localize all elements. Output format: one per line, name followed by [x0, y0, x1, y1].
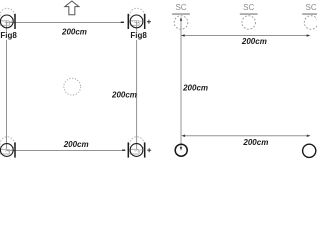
microphone Fig8 top-left	[0, 8, 16, 29]
node plus mark top-right mic	[147, 20, 151, 24]
dimension line horizontal bottom 200cm	[181, 134, 310, 137]
microphone Fig8 bottom-right	[128, 137, 146, 158]
svg-text:SC: SC	[175, 3, 186, 12]
dimension line vertical 200cm	[180, 17, 183, 151]
arrow front direction	[65, 1, 79, 15]
loudspeaker circle bottom-right	[303, 144, 316, 157]
svg-text:200cm: 200cm	[63, 140, 89, 149]
dotted circle listener center of square	[64, 78, 81, 95]
svg-text:Fig8: Fig8	[0, 31, 17, 40]
svg-text:200cm: 200cm	[111, 90, 137, 99]
wire left side of square	[6, 40, 8, 151]
node minus mark top-right mic	[121, 21, 124, 23]
microphone SC right	[302, 13, 320, 29]
microphone SC middle	[240, 13, 258, 29]
svg-text:200cm: 200cm	[61, 28, 87, 37]
wire right side of square upper stub	[136, 21, 138, 31]
svg-text:SC: SC	[243, 3, 254, 12]
wire left side of square upper stub	[6, 21, 8, 31]
svg-text:SC: SC	[306, 3, 317, 12]
wire right side of square	[136, 40, 138, 151]
microphone Fig8 top-right	[128, 8, 146, 29]
node minus mark bottom-right mic	[122, 149, 125, 151]
svg-text:200cm: 200cm	[182, 84, 208, 93]
wire top side of square	[7, 22, 121, 24]
microphone Fig8 bottom-left	[0, 137, 16, 158]
svg-text:200cm: 200cm	[241, 37, 267, 46]
dimension line horizontal top 200cm	[181, 34, 311, 37]
loudspeaker circle bottom-left	[175, 144, 187, 156]
node plus mark bottom-right mic	[147, 148, 151, 152]
svg-text:200cm: 200cm	[242, 138, 268, 147]
microphone SC left	[172, 13, 190, 29]
wire bottom side of square	[7, 150, 122, 152]
svg-text:Fig8: Fig8	[130, 31, 147, 40]
